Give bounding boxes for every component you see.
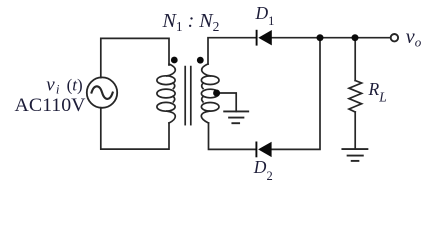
svg-text:AC110V: AC110V <box>15 96 87 116</box>
svg-text:i: i <box>56 82 60 97</box>
svg-text:v: v <box>46 75 55 96</box>
svg-text:N1 : N2: N1 : N2 <box>162 10 220 34</box>
svg-text:(t): (t) <box>67 76 83 95</box>
